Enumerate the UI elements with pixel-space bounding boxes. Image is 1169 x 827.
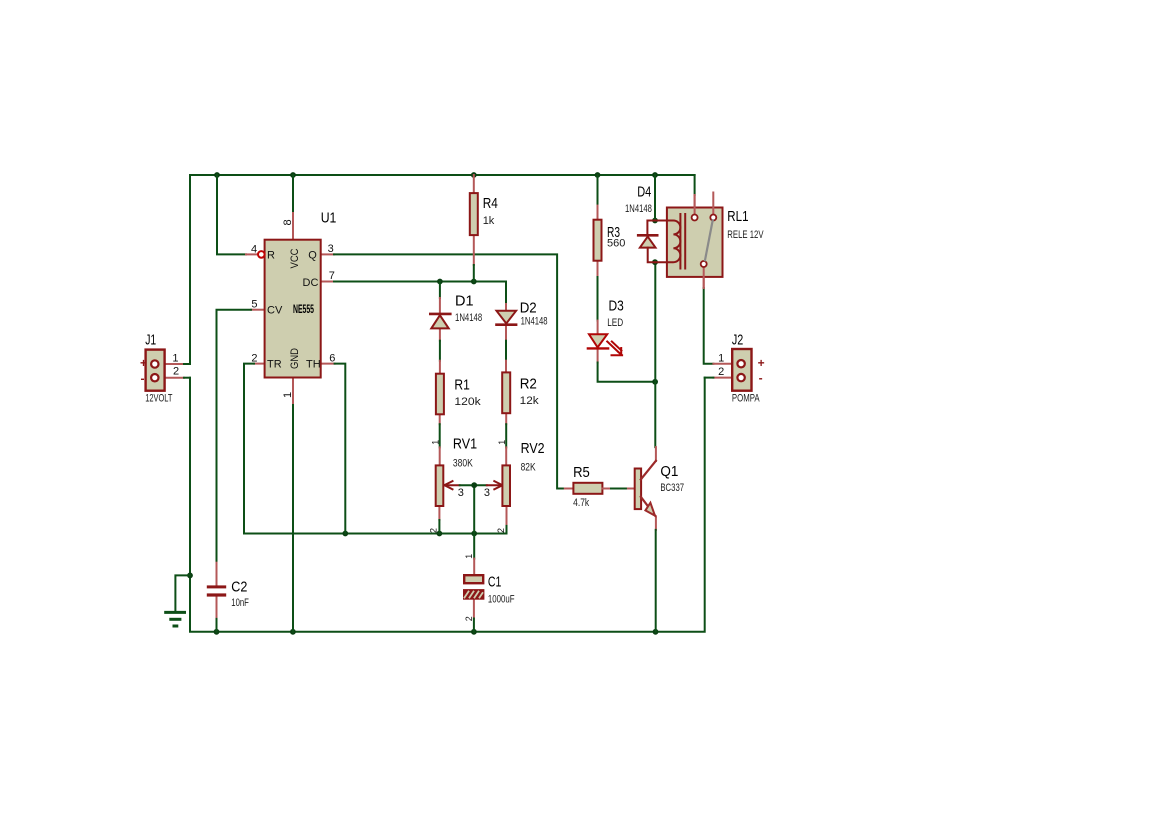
node DC / R4: [471, 279, 477, 285]
wire U1 pin7 DC net: [321, 282, 506, 311]
resistor R3: [594, 220, 626, 261]
wire D2 bottom to R2: [505, 325, 507, 373]
svg-text:82K: 82K: [521, 462, 537, 474]
svg-text:12k: 12k: [520, 395, 540, 407]
node rail / wiper C1: [471, 531, 477, 537]
svg-text:R2: R2: [520, 376, 537, 393]
node bottom bus / C1: [471, 629, 477, 635]
wire Q1 emitter to bus: [655, 516, 657, 631]
wiper arrowhead RV2: [494, 481, 502, 489]
svg-text:380K: 380K: [453, 458, 474, 470]
node top bus / R4: [471, 172, 477, 178]
wire J2 pin2 to bus: [705, 377, 733, 379]
svg-text:J1: J1: [145, 332, 156, 349]
svg-text:2: 2: [464, 616, 474, 621]
potentiometer RV1: [429, 436, 478, 534]
svg-text:TR: TR: [267, 359, 282, 371]
svg-text:VCC: VCC: [289, 248, 301, 268]
svg-text:1: 1: [282, 392, 294, 398]
svg-text:10nF: 10nF: [231, 597, 249, 609]
node wiper junction: [471, 482, 477, 488]
svg-text:J2: J2: [732, 332, 743, 349]
wiper arrowhead RV1: [444, 481, 452, 489]
wire U1 pin1 GND net: [292, 378, 294, 632]
svg-text:1k: 1k: [483, 215, 495, 227]
connector J2: [718, 332, 765, 405]
svg-text:NE555: NE555: [293, 302, 314, 316]
node rail / TH: [342, 531, 348, 537]
svg-text:1: 1: [431, 440, 441, 445]
wire U1 pin2 TR net: [244, 364, 507, 534]
svg-text:DC: DC: [303, 277, 319, 289]
svg-text:3: 3: [484, 487, 490, 499]
svg-text:5: 5: [251, 298, 257, 310]
wire R3 bottom to LED: [597, 261, 599, 335]
svg-text:BC337: BC337: [660, 482, 684, 494]
svg-text:7: 7: [329, 270, 335, 282]
svg-text:R: R: [267, 249, 275, 261]
wire R4 bottom to DC: [473, 235, 475, 281]
node bottom bus / C2: [214, 629, 220, 635]
svg-text:POMPA: POMPA: [732, 393, 760, 405]
diode D4: [625, 184, 657, 263]
svg-text:120k: 120k: [454, 396, 481, 408]
wire relay switch pin to J2 pin1: [704, 267, 733, 364]
svg-text:+: +: [140, 356, 147, 370]
relay RL1: [655, 193, 764, 289]
svg-text:CV: CV: [267, 305, 283, 317]
wire relay coil bottom to Q1 collector: [654, 262, 657, 461]
svg-text:-: -: [141, 372, 145, 386]
svg-text:4.7k: 4.7k: [573, 497, 589, 509]
svg-text:RV2: RV2: [521, 440, 545, 457]
node bottom bus / Q1 emitter: [653, 629, 659, 635]
node ground stub: [187, 573, 193, 579]
wire R3 top pin: [597, 175, 599, 220]
svg-text:RELE 12V: RELE 12V: [727, 229, 764, 241]
svg-text:RL1: RL1: [727, 208, 748, 225]
connector J1: [140, 332, 179, 405]
capacitor C1 electrolytic: [464, 554, 515, 622]
svg-text:R1: R1: [454, 377, 469, 394]
wire R1 bottom to RV1 top: [439, 414, 441, 465]
svg-text:D1: D1: [455, 293, 474, 310]
wire relay top pin from bus: [694, 175, 696, 214]
node top bus / pin4 net: [214, 172, 220, 178]
wire C1 bottom pin: [473, 599, 475, 632]
svg-text:2: 2: [429, 528, 439, 533]
svg-text:GND: GND: [289, 348, 301, 369]
node bottom bus / U1 GND: [290, 629, 296, 635]
svg-text:1: 1: [718, 353, 724, 365]
svg-text:12VOLT: 12VOLT: [145, 393, 172, 405]
svg-text:3: 3: [458, 487, 464, 499]
svg-text:D3: D3: [609, 298, 624, 315]
svg-text:1N4148: 1N4148: [521, 316, 548, 328]
svg-text:R5: R5: [573, 464, 590, 481]
svg-text:D4: D4: [637, 184, 651, 201]
svg-text:6: 6: [329, 352, 335, 364]
node rail / RV1: [437, 531, 443, 537]
wire C2 bottom pin: [216, 597, 218, 632]
wire U1 pin5 CV net to C2: [217, 310, 265, 586]
node coil top / D4: [652, 218, 658, 224]
node coil bottom / D4: [652, 259, 658, 265]
wire U1 pin3 Q net to R5: [321, 254, 574, 488]
resistor R4: [470, 193, 498, 235]
resistor R5: [573, 464, 635, 509]
wire U1 pin4 reset net: [217, 175, 257, 254]
svg-text:LED: LED: [607, 317, 623, 329]
node top bus / relay coil D4: [652, 172, 658, 178]
svg-text:1N4148: 1N4148: [625, 203, 652, 215]
svg-text:TH: TH: [306, 359, 321, 371]
capacitor C2: [207, 579, 249, 610]
svg-text:1N4148: 1N4148: [455, 312, 482, 324]
svg-text:RV1: RV1: [453, 436, 477, 453]
wire D1 bottom to R1: [439, 328, 441, 373]
wire top VCC bus: [190, 175, 695, 364]
svg-text:4: 4: [251, 243, 257, 255]
wire J1 pin1: [165, 363, 190, 365]
svg-text:560: 560: [607, 238, 625, 250]
ground: [166, 575, 190, 626]
wire U1 pin6 TH net: [321, 364, 346, 534]
wire bottom ground bus: [190, 378, 705, 632]
wire bus to coil top: [654, 175, 656, 221]
node top bus / VCC pin8: [290, 172, 296, 178]
wire wiper net to C1: [444, 485, 502, 575]
svg-text:C2: C2: [231, 579, 247, 596]
wire LED bottom to collector net: [598, 348, 656, 382]
svg-text:1: 1: [497, 440, 507, 445]
node LED / collector: [652, 379, 658, 385]
svg-text:1: 1: [172, 353, 178, 365]
svg-text:1000uF: 1000uF: [488, 594, 515, 606]
svg-text:C1: C1: [488, 574, 502, 591]
svg-text:8: 8: [282, 219, 294, 225]
wire U1 pin8 VCC net: [292, 175, 294, 240]
wire R4 top pin: [473, 175, 475, 193]
svg-text:-: -: [759, 371, 763, 385]
svg-text:R4: R4: [483, 195, 498, 212]
svg-text:2: 2: [496, 528, 506, 533]
svg-text:1: 1: [464, 554, 474, 559]
svg-text:U1: U1: [321, 210, 337, 227]
svg-text:3: 3: [328, 243, 334, 255]
svg-text:Q1: Q1: [660, 463, 678, 480]
potentiometer RV2: [484, 440, 545, 533]
LED D3: [588, 298, 624, 356]
resistor R1: [436, 374, 481, 415]
wire R2 bottom to RV2 top: [505, 413, 507, 465]
diode D2: [497, 300, 548, 328]
svg-text:2: 2: [173, 366, 179, 378]
wire RV1 bottom pin to rail: [438, 506, 440, 534]
node DC / D1: [437, 279, 443, 285]
diode D1: [430, 293, 482, 329]
svg-text:D2: D2: [520, 300, 537, 317]
wire DC to D1 top: [439, 282, 441, 314]
op-amp/timer U1 NE555: [251, 210, 336, 399]
svg-text:Q: Q: [308, 249, 317, 261]
wire J1 pin2: [165, 377, 190, 379]
svg-text:2: 2: [718, 366, 724, 378]
transistor Q1 BC337: [635, 461, 684, 516]
resistor R2: [502, 372, 539, 413]
svg-text:+: +: [758, 356, 765, 370]
node top bus / R3: [595, 172, 601, 178]
svg-text:2: 2: [251, 352, 257, 364]
